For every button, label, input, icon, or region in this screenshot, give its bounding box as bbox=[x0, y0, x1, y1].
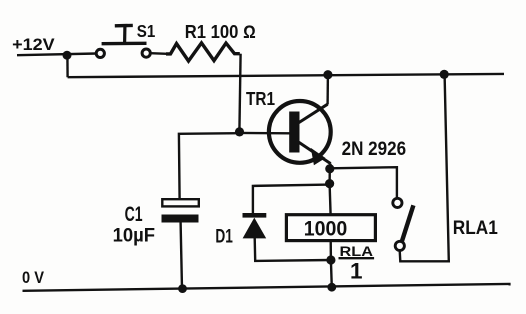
resistor R1 bbox=[166, 43, 240, 61]
svg-text:2N 2926: 2N 2926 bbox=[342, 139, 407, 160]
wire R1 down to base node bbox=[239, 54, 240, 132]
wire base bbox=[240, 132, 290, 135]
svg-text:R1 100 Ω: R1 100 Ω bbox=[185, 22, 256, 42]
node diode tap junction bbox=[325, 179, 334, 188]
svg-text:C1: C1 bbox=[125, 203, 143, 226]
node base junction bbox=[235, 127, 244, 136]
node collector bus junction bbox=[323, 70, 332, 79]
wire C1 to 0V rail bbox=[181, 223, 182, 290]
wire emitter stub bbox=[329, 164, 332, 169]
svg-text:1000: 1000 bbox=[304, 217, 348, 240]
wire coil junction to 0V bbox=[330, 260, 333, 287]
svg-text:10µF: 10µF bbox=[113, 225, 156, 247]
svg-text:+12V: +12V bbox=[12, 36, 55, 54]
capacitor C1 bbox=[162, 199, 199, 222]
svg-text:S1: S1 bbox=[137, 21, 156, 41]
wire base node to C1 bbox=[179, 133, 240, 199]
relay coil RLA box bbox=[286, 215, 375, 241]
wire diode tap to D1 cathode bbox=[253, 185, 330, 214]
wire 0V rail bbox=[23, 284, 511, 291]
wire drop from +12V node to bus bbox=[66, 55, 69, 77]
transistor TR1 bbox=[269, 101, 331, 165]
switch S1 pushbutton bbox=[96, 25, 150, 57]
wire diode tap down to coil bbox=[330, 184, 331, 215]
svg-text:TR1: TR1 bbox=[246, 89, 275, 109]
svg-text:0 V: 0 V bbox=[22, 269, 44, 287]
wire S1 to R1 bbox=[150, 52, 167, 55]
label RLA fraction bbox=[340, 243, 374, 284]
svg-text:D1: D1 bbox=[215, 226, 233, 247]
svg-text:RLA1: RLA1 bbox=[453, 217, 498, 239]
wire coil to bottom junction bbox=[330, 241, 333, 260]
wire +12V bus rail bbox=[68, 74, 504, 77]
wire emitter node down to diode tap bbox=[328, 169, 331, 184]
node +12V junction bbox=[63, 51, 72, 60]
node 0V junction under coil bbox=[327, 283, 336, 292]
svg-text:1: 1 bbox=[350, 259, 363, 284]
wire +12V feed bbox=[17, 54, 97, 56]
wire contact return to bus bbox=[400, 75, 449, 261]
wire D1 anode to coil bottom junction bbox=[255, 238, 331, 261]
wire collector up to bus bbox=[326, 75, 329, 105]
wire emitter to relay contact bbox=[330, 167, 397, 198]
node bus contact junction bbox=[440, 70, 449, 79]
node coil bottom junction bbox=[326, 255, 335, 264]
node C1 0V junction bbox=[178, 284, 187, 293]
underline RLA bbox=[339, 257, 375, 259]
node emitter junction bbox=[325, 164, 334, 173]
svg-text:RLA: RLA bbox=[340, 243, 374, 259]
diode D1 bbox=[243, 213, 267, 238]
relay contact RLA1 bbox=[393, 198, 414, 250]
